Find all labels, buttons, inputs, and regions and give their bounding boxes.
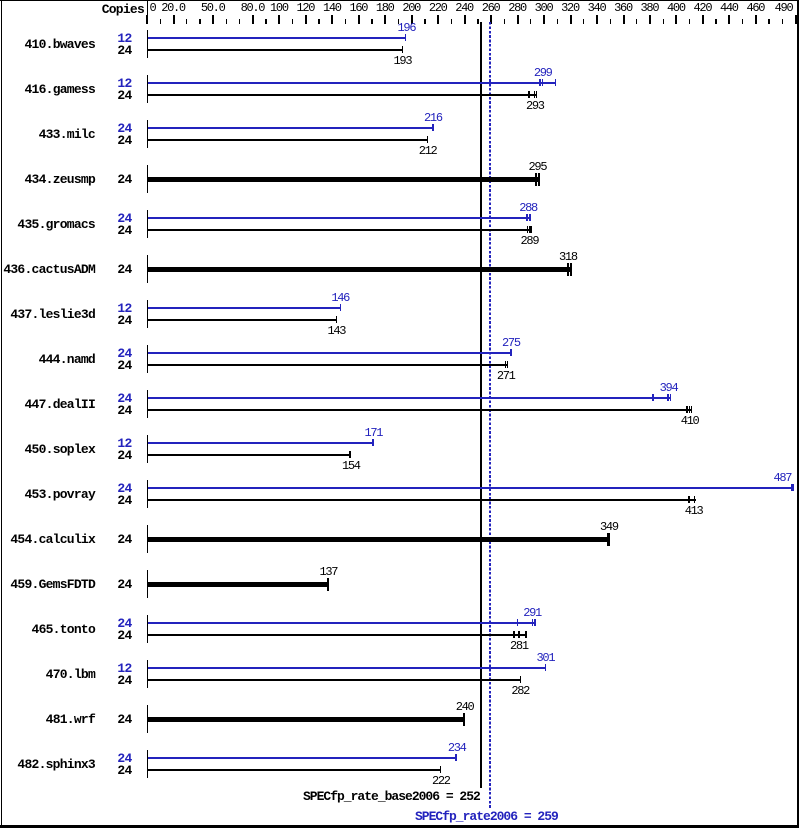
450.soplex base run marker 1 — [349, 451, 351, 458]
base value label 212 — [419, 145, 437, 157]
peak value label 275 — [502, 337, 520, 349]
axis minor tick 170 — [371, 19, 372, 24]
453.povray peak run marker 1 — [791, 484, 794, 491]
base copies label 24 — [70, 764, 132, 777]
peak copies label 24 — [70, 482, 132, 495]
437.leslie3d peak run marker 1 — [340, 304, 342, 311]
433.milc peak bar — [148, 127, 434, 129]
454.calculix base bar — [148, 537, 610, 542]
axis label 280 — [508, 2, 526, 14]
base copies label 24 — [70, 359, 132, 372]
axis label 120 — [296, 2, 314, 14]
axis minor tick 330 — [583, 19, 584, 24]
axis label 260 — [482, 2, 500, 14]
465.tonto base run marker 1 — [513, 631, 515, 638]
axis minor tick 250 — [477, 19, 478, 24]
416.gamess base bar — [148, 94, 537, 96]
copies label 24 — [70, 533, 132, 546]
copies label 24 — [70, 713, 132, 726]
axis bracket for 434.zeusmp — [147, 165, 148, 193]
410.bwaves peak bar — [148, 37, 406, 39]
axis bracket for 435.gromacs — [147, 210, 148, 238]
axis label 160 — [349, 2, 367, 14]
axis label 220 — [429, 2, 447, 14]
435.gromacs peak run marker 1 — [526, 214, 528, 221]
peak value label 196 — [398, 22, 416, 34]
465.tonto peak run marker 3 — [534, 619, 536, 626]
benchmark name label 453.povray — [0, 488, 95, 501]
axis label 50.0 — [201, 2, 225, 14]
benchmark name label 444.namd — [0, 353, 95, 366]
base value label 154 — [342, 460, 360, 472]
axis major tick 80 — [252, 15, 254, 24]
435.gromacs base run marker 2 — [529, 226, 531, 233]
peak copies label 24 — [70, 392, 132, 405]
433.milc base run marker 1 — [427, 136, 429, 143]
peak value label 216 — [424, 112, 442, 124]
value label 295 — [529, 161, 547, 173]
base copies label 24 — [70, 674, 132, 687]
benchmark name label 436.cactusADM — [0, 263, 95, 276]
base value label 281 — [510, 640, 528, 652]
axis label 340 — [588, 2, 606, 14]
465.tonto base run marker 3 — [525, 631, 527, 638]
454.calculix base run marker 1 — [607, 533, 610, 546]
437.leslie3d base run marker 1 — [336, 316, 338, 323]
axis major tick 380 — [649, 15, 651, 24]
axis label 140 — [323, 2, 341, 14]
470.lbm base bar — [148, 679, 521, 681]
axis minor tick 430 — [715, 19, 716, 24]
axis minor tick 90 — [265, 19, 266, 24]
465.tonto peak run marker 2 — [532, 619, 534, 626]
axis minor tick 40 — [199, 19, 200, 24]
453.povray base bar — [148, 499, 696, 501]
axis bracket for 437.leslie3d — [147, 300, 148, 328]
459.GemsFDTD base bar — [148, 582, 329, 587]
axis minor tick 480 — [782, 19, 783, 24]
416.gamess peak run marker 3 — [555, 79, 557, 86]
444.namd base run marker 2 — [507, 361, 509, 368]
axis bracket for 453.povray — [147, 480, 148, 508]
447.dealII base run marker 2 — [689, 406, 691, 413]
axis label 240 — [455, 2, 473, 14]
437.leslie3d peak bar — [148, 307, 341, 309]
axis label 380 — [641, 2, 659, 14]
benchmark name label 450.soplex — [0, 443, 95, 456]
base copies label 24 — [70, 224, 132, 237]
axis minor tick 210 — [424, 19, 425, 24]
470.lbm peak bar — [148, 667, 546, 669]
axis major tick 160 — [358, 15, 360, 24]
axis minor tick 10 — [160, 19, 161, 24]
axis bracket for 454.calculix — [147, 525, 148, 553]
453.povray base run marker 2 — [694, 496, 696, 503]
benchmark name label 416.gamess — [0, 83, 95, 96]
447.dealII peak bar — [148, 397, 671, 399]
410.bwaves base run marker 1 — [402, 46, 404, 53]
axis label 100 — [270, 2, 288, 14]
453.povray base run marker 1 — [688, 496, 690, 503]
axis major tick 420 — [702, 15, 704, 24]
axis minor tick 390 — [663, 19, 664, 24]
chart frame right border — [797, 0, 799, 827]
444.namd base run marker 1 — [505, 361, 507, 368]
447.dealII base run marker 3 — [691, 406, 693, 413]
482.sphinx3 base run marker 1 — [440, 766, 442, 773]
444.namd peak run marker 1 — [510, 349, 512, 356]
436.cactusADM base bar — [148, 267, 572, 272]
436.cactusADM base run marker 2 — [570, 263, 572, 276]
435.gromacs base run marker 1 — [527, 226, 529, 233]
433.milc base bar — [148, 139, 428, 141]
444.namd peak bar — [148, 352, 512, 354]
axis major tick 260 — [490, 15, 492, 24]
447.dealII base run marker 1 — [686, 406, 688, 413]
axis label 0 — [150, 2, 156, 14]
axis major tick 50 — [212, 15, 214, 24]
axis label 420 — [694, 2, 712, 14]
450.soplex peak run marker 1 — [372, 439, 374, 446]
axis bracket for 465.tonto — [147, 615, 148, 643]
434.zeusmp base run marker 2 — [538, 173, 540, 186]
axis label 80.0 — [241, 2, 265, 14]
465.tonto peak run marker 1 — [517, 619, 519, 626]
axis minor tick 110 — [292, 19, 293, 24]
summary text SPECfp_rate2006 = 259 — [415, 810, 558, 823]
peak copies label 24 — [70, 617, 132, 630]
value label 318 — [559, 251, 577, 263]
axis bracket for 410.bwaves — [147, 30, 148, 58]
benchmark name label 435.gromacs — [0, 218, 95, 231]
axis major tick 360 — [623, 15, 625, 24]
base value label 413 — [685, 505, 703, 517]
465.tonto base bar — [148, 634, 527, 636]
benchmark name label 470.lbm — [0, 668, 95, 681]
482.sphinx3 base bar — [148, 769, 441, 771]
444.namd base bar — [148, 364, 508, 366]
axis bracket for 481.wrf — [147, 705, 148, 733]
416.gamess base run marker 1 — [528, 91, 530, 98]
447.dealII peak run marker 2 — [667, 394, 669, 401]
peak value label 394 — [660, 382, 678, 394]
axis bracket for 450.soplex — [147, 435, 148, 463]
465.tonto base run marker 2 — [518, 631, 520, 638]
axis label 490 — [775, 2, 793, 14]
axis minor tick 190 — [398, 19, 399, 24]
axis minor tick 410 — [689, 19, 690, 24]
axis bracket for 436.cactusADM — [147, 255, 148, 283]
copies label 24 — [70, 263, 132, 276]
y-axis header segment at value 0 — [147, 0, 148, 23]
peak value label 171 — [364, 427, 382, 439]
base copies label 24 — [70, 44, 132, 57]
axis bracket for 433.milc — [147, 120, 148, 148]
peak copies label 12 — [70, 662, 132, 675]
axis major tick 100 — [278, 15, 280, 24]
chart frame bottom border — [0, 825, 799, 828]
peak copies label 24 — [70, 212, 132, 225]
base copies label 24 — [70, 404, 132, 417]
450.soplex base bar — [148, 454, 351, 456]
axis bracket for 416.gamess — [147, 75, 148, 103]
axis major tick 280 — [517, 15, 519, 24]
447.dealII peak run marker 3 — [670, 394, 672, 401]
axis minor tick 350 — [610, 19, 611, 24]
axis label 360 — [614, 2, 632, 14]
axis minor tick 450 — [742, 19, 743, 24]
base copies label 24 — [70, 314, 132, 327]
column header "Copies" — [44, 3, 144, 16]
base value label 289 — [521, 235, 539, 247]
base copies label 24 — [70, 494, 132, 507]
447.dealII base bar — [148, 409, 693, 411]
benchmark name label 447.dealII — [0, 398, 95, 411]
435.gromacs base bar — [148, 229, 532, 231]
value label 137 — [319, 566, 337, 578]
axis major tick 20 — [173, 15, 175, 24]
benchmark name label 482.sphinx3 — [0, 758, 95, 771]
434.zeusmp base run marker 1 — [535, 173, 537, 186]
axis bracket for 459.GemsFDTD — [147, 570, 148, 598]
benchmark name label 465.tonto — [0, 623, 95, 636]
481.wrf base run marker 1 — [463, 713, 466, 726]
447.dealII peak run marker 1 — [652, 394, 654, 401]
axis label 320 — [561, 2, 579, 14]
axis minor tick 30 — [186, 19, 187, 24]
chart frame top border — [0, 0, 799, 1]
axis minor tick 230 — [451, 19, 452, 24]
base value label 143 — [327, 325, 345, 337]
416.gamess base run marker 3 — [536, 91, 538, 98]
axis minor tick 60 — [226, 19, 227, 24]
axis label 20.0 — [161, 2, 185, 14]
chart frame left border — [1, 0, 3, 827]
peak value label 291 — [523, 607, 541, 619]
410.bwaves base bar — [148, 49, 403, 51]
benchmark name label 459.GemsFDTD — [0, 578, 95, 591]
base value label 293 — [526, 100, 544, 112]
peak copies label 12 — [70, 437, 132, 450]
481.wrf base bar — [148, 717, 466, 722]
axis major tick 490 — [795, 15, 797, 24]
benchmark name label 481.wrf — [0, 713, 95, 726]
453.povray peak bar — [148, 487, 795, 489]
416.gamess base run marker 2 — [534, 91, 536, 98]
peak value label 487 — [774, 472, 792, 484]
435.gromacs base run marker 3 — [530, 226, 532, 233]
465.tonto peak bar — [148, 622, 536, 624]
axis minor tick 370 — [636, 19, 637, 24]
axis major tick 340 — [596, 15, 598, 24]
axis bracket for 444.namd — [147, 345, 148, 373]
base copies label 24 — [70, 89, 132, 102]
benchmark name label 434.zeusmp — [0, 173, 95, 186]
433.milc peak run marker 1 — [432, 124, 434, 131]
axis major tick 220 — [437, 15, 439, 24]
axis major tick 240 — [464, 15, 466, 24]
peak value label 288 — [519, 202, 537, 214]
axis bracket for 447.dealII — [147, 390, 148, 418]
copies label 24 — [70, 173, 132, 186]
dotted vertical reference line SPECfp_rate2006 = 259 — [489, 22, 491, 808]
axis minor tick 130 — [318, 19, 319, 24]
axis label 400 — [667, 2, 685, 14]
benchmark name label 454.calculix — [0, 533, 95, 546]
axis label 300 — [535, 2, 553, 14]
482.sphinx3 peak bar — [148, 757, 457, 759]
axis label 200 — [402, 2, 420, 14]
axis minor tick 290 — [530, 19, 531, 24]
peak value label 146 — [331, 292, 349, 304]
axis label 440 — [720, 2, 738, 14]
axis major tick 440 — [728, 15, 730, 24]
axis major tick 120 — [305, 15, 307, 24]
axis bracket for 470.lbm — [147, 660, 148, 688]
benchmark name label 437.leslie3d — [0, 308, 95, 321]
axis major tick 320 — [570, 15, 572, 24]
416.gamess peak bar — [148, 82, 556, 84]
value label 240 — [456, 701, 474, 713]
435.gromacs peak run marker 2 — [529, 214, 531, 221]
peak copies label 24 — [70, 122, 132, 135]
470.lbm base run marker 1 — [520, 676, 522, 683]
base value label 410 — [681, 415, 699, 427]
450.soplex peak bar — [148, 442, 374, 444]
peak value label 234 — [448, 742, 466, 754]
base value label 271 — [497, 370, 515, 382]
benchmark name label 410.bwaves — [0, 38, 95, 51]
416.gamess peak run marker 1 — [539, 79, 541, 86]
axis minor tick 310 — [557, 19, 558, 24]
peak value label 299 — [534, 67, 552, 79]
peak copies label 12 — [70, 32, 132, 45]
459.GemsFDTD base run marker 1 — [327, 578, 329, 591]
peak value label 301 — [537, 652, 555, 664]
435.gromacs peak bar — [148, 217, 531, 219]
base value label 193 — [394, 55, 412, 67]
summary text SPECfp_rate_base2006 = 252 — [303, 790, 480, 803]
434.zeusmp base bar — [148, 177, 540, 182]
axis major tick 400 — [675, 15, 677, 24]
axis minor tick 150 — [345, 19, 346, 24]
peak copies label 12 — [70, 77, 132, 90]
axis label 180 — [376, 2, 394, 14]
437.leslie3d base bar — [148, 319, 337, 321]
axis minor tick 270 — [504, 19, 505, 24]
axis label 460 — [746, 2, 764, 14]
peak copies label 12 — [70, 302, 132, 315]
470.lbm peak run marker 1 — [545, 664, 547, 671]
axis major tick 460 — [755, 15, 757, 24]
copies label 24 — [70, 578, 132, 591]
vertical reference line SPECfp_rate_base2006 = 252 — [480, 22, 482, 788]
axis major tick 140 — [331, 15, 333, 24]
base copies label 24 — [70, 629, 132, 642]
benchmark name label 433.milc — [0, 128, 95, 141]
axis major tick 0 — [146, 15, 148, 24]
axis major tick 200 — [411, 15, 413, 24]
axis minor tick 70 — [239, 19, 240, 24]
base copies label 24 — [70, 134, 132, 147]
base value label 222 — [432, 775, 450, 787]
436.cactusADM base run marker 1 — [567, 263, 569, 276]
base copies label 24 — [70, 449, 132, 462]
value label 349 — [600, 521, 618, 533]
peak copies label 24 — [70, 347, 132, 360]
base value label 282 — [511, 685, 529, 697]
482.sphinx3 peak run marker 1 — [455, 754, 457, 761]
peak copies label 24 — [70, 752, 132, 765]
axis bracket for 482.sphinx3 — [147, 750, 148, 778]
axis minor tick 470 — [768, 19, 769, 24]
410.bwaves peak run marker 1 — [405, 34, 407, 41]
416.gamess peak run marker 2 — [542, 79, 544, 86]
axis major tick 180 — [384, 15, 386, 24]
axis major tick 300 — [543, 15, 545, 24]
